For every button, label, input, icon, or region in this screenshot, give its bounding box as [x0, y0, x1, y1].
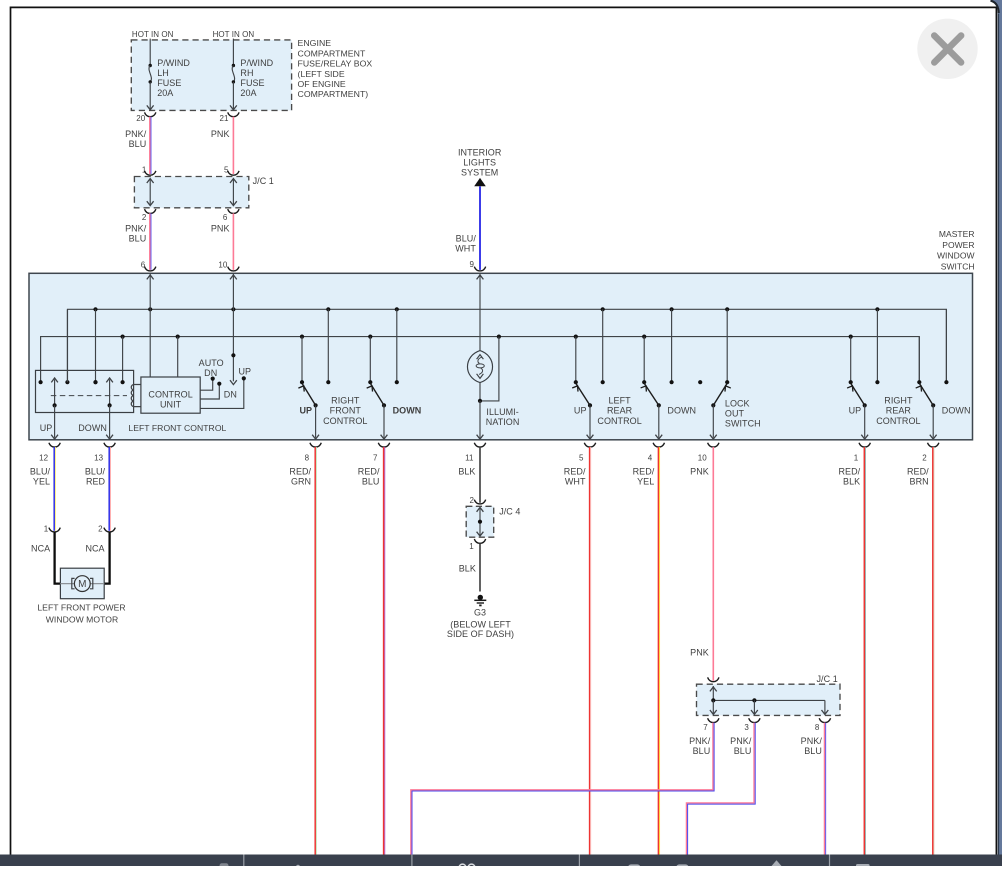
svg-text:NCA: NCA	[31, 544, 50, 554]
svg-text:10: 10	[218, 261, 227, 270]
svg-text:2: 2	[922, 453, 927, 462]
svg-text:PNK: PNK	[211, 129, 230, 139]
DN contact	[200, 385, 219, 399]
svg-text:BLK: BLK	[459, 564, 476, 574]
svg-text:BLU/: BLU/	[456, 234, 477, 244]
svg-text:9: 9	[470, 260, 475, 269]
NCA wire right (black)	[104, 532, 109, 584]
close (X) button	[917, 19, 977, 79]
svg-text:RED: RED	[86, 477, 106, 487]
svg-text:WHT: WHT	[565, 477, 586, 487]
switch pin 9 internal wire	[479, 274, 481, 351]
svg-text:LH: LH	[157, 68, 169, 78]
wire BLK J/C4 to ground	[479, 543, 481, 591]
J/C1 bottom internal wiring	[712, 686, 714, 700]
svg-text:REAR: REAR	[607, 406, 633, 416]
svg-text:M: M	[78, 579, 86, 590]
svg-text:DOWN: DOWN	[78, 423, 107, 433]
wire RED/BLU pin7 to bottom	[383, 447, 385, 855]
svg-text:13: 13	[94, 453, 103, 462]
switch pin 6 internal wire	[149, 274, 151, 377]
svg-text:DN: DN	[204, 368, 217, 378]
svg-text:OF ENGINE: OF ENGINE	[298, 79, 346, 89]
wire RED/YEL pin4 to bottom	[657, 447, 659, 855]
svg-text:BLK: BLK	[458, 467, 475, 477]
switch pole x=727.2	[726, 309, 728, 382]
wire BLU/YEL pin12	[53, 447, 55, 531]
engine compartment fuse/relay box (dashed)	[131, 40, 291, 111]
svg-text:1: 1	[469, 542, 474, 551]
bus2 contact stubs (relay and control unit)	[122, 337, 124, 383]
junction connector J/C 4	[466, 506, 494, 537]
fuse P/WIND LH 20A	[149, 39, 151, 66]
toolbar icon fragments	[220, 863, 229, 868]
bottom toolbar	[0, 855, 1002, 867]
svg-text:HOT IN ON: HOT IN ON	[213, 30, 255, 39]
svg-text:20A: 20A	[240, 88, 256, 98]
svg-text:2: 2	[98, 525, 103, 534]
left front power window motor M1	[60, 568, 104, 599]
switch bottom pin 1 connector	[859, 443, 870, 447]
svg-text:LOCK: LOCK	[725, 398, 750, 408]
svg-text:WHT: WHT	[455, 244, 476, 254]
svg-text:BLU: BLU	[804, 746, 822, 756]
svg-text:UP: UP	[299, 406, 312, 416]
switch pole x=850.7	[850, 337, 852, 383]
svg-text:1: 1	[44, 525, 49, 534]
ground G3	[478, 595, 483, 600]
switch pole x=644.2	[643, 337, 645, 383]
svg-text:RH: RH	[240, 68, 253, 78]
svg-text:WINDOW MOTOR: WINDOW MOTOR	[46, 615, 119, 625]
svg-text:PNK/: PNK/	[125, 129, 147, 139]
toolbar separators	[243, 855, 245, 867]
relay mechanical linkage (dashed)	[51, 395, 127, 397]
wire RED/GRN pin8 to bottom	[314, 447, 316, 855]
switch bottom pin 12 connector	[49, 443, 60, 447]
svg-text:BRN: BRN	[910, 477, 929, 487]
svg-text:J/C 1: J/C 1	[253, 176, 274, 186]
switch bottom pin 4 connector	[653, 443, 664, 447]
svg-text:SIDE OF DASH): SIDE OF DASH)	[447, 629, 514, 639]
svg-text:NCA: NCA	[85, 544, 104, 554]
relay moving contacts UP/DOWN	[54, 379, 56, 405]
switch bottom pin 5 connector	[584, 443, 595, 447]
svg-text:P/WIND: P/WIND	[240, 58, 273, 68]
left front control relay contact box	[36, 370, 134, 412]
isolated contact dot near lockout	[698, 380, 702, 384]
svg-text:UP: UP	[238, 367, 251, 377]
svg-text:MASTER: MASTER	[939, 229, 975, 239]
junction connector J/C 1 (bottom)	[697, 684, 841, 715]
svg-text:RED/: RED/	[907, 467, 929, 477]
switch bottom pin 7 connector	[378, 443, 389, 447]
switch bottom pin 11 connector	[474, 443, 485, 447]
wire PNK/BLU fuse20 to J/C1 pin1	[149, 117, 151, 174]
J/C1 internal through-path x=233.4	[232, 180, 234, 205]
wire BLU/WHT switch pin9 to interior lights	[479, 186, 481, 270]
svg-text:RIGHT: RIGHT	[884, 396, 913, 406]
svg-text:BLU/: BLU/	[30, 467, 51, 477]
svg-text:PNK/: PNK/	[801, 736, 823, 746]
svg-text:DOWN: DOWN	[667, 406, 696, 416]
wire PNK pin10 to J/C1 bottom	[712, 447, 714, 681]
relay coil	[131, 385, 141, 407]
wire PNK/BLU J/C1 pin3	[686, 723, 755, 855]
svg-text:G3: G3	[474, 607, 486, 617]
illumination output to pin 11	[479, 401, 481, 438]
svg-text:BLU: BLU	[693, 746, 711, 756]
wire BLU/RED pin13	[108, 447, 110, 531]
svg-text:8: 8	[815, 723, 820, 732]
svg-text:1: 1	[854, 453, 859, 462]
svg-text:PNK: PNK	[690, 647, 709, 657]
svg-text:RED/: RED/	[289, 467, 311, 477]
svg-text:RED/: RED/	[838, 467, 860, 477]
svg-text:BLU/: BLU/	[85, 467, 106, 477]
svg-text:LEFT FRONT POWER: LEFT FRONT POWER	[37, 603, 125, 613]
wire RED/WHT pin5 to bottom	[589, 447, 591, 855]
svg-text:UP: UP	[849, 406, 862, 416]
svg-text:20: 20	[136, 114, 145, 123]
svg-text:HOT IN ON: HOT IN ON	[132, 30, 174, 39]
svg-text:COMPARTMENT): COMPARTMENT)	[298, 89, 369, 99]
J/C1 internal through-path x=150.2	[149, 180, 151, 205]
J/C1 bottom pins 7 3 8 connectors	[708, 718, 719, 722]
svg-text:SWITCH: SWITCH	[725, 419, 761, 429]
svg-text:PNK: PNK	[690, 467, 709, 477]
wire PNK/BLU J/C1 pin8	[824, 723, 826, 855]
svg-text:BLU: BLU	[129, 233, 147, 243]
bus wire 2 (lower horizontal)	[41, 337, 920, 383]
bus1 junction dots	[93, 307, 97, 311]
svg-text:P/WIND: P/WIND	[157, 58, 190, 68]
switch pin 10 internal wire to auto-down pole	[232, 274, 234, 381]
NCA wire left (black)	[55, 532, 61, 584]
master power window switch box	[29, 273, 973, 440]
svg-text:DOWN: DOWN	[942, 406, 971, 416]
svg-text:21: 21	[220, 114, 229, 123]
switch pole x=575.8	[575, 337, 577, 383]
svg-text:(LEFT SIDE: (LEFT SIDE	[298, 69, 345, 79]
svg-text:ILLUMI-: ILLUMI-	[486, 407, 518, 417]
svg-text:FUSE: FUSE	[157, 78, 181, 88]
switch bottom pin 2 connector	[928, 443, 939, 447]
svg-text:12: 12	[39, 453, 48, 462]
svg-text:BLK: BLK	[843, 477, 860, 487]
svg-text:INTERIOR: INTERIOR	[458, 147, 502, 157]
svg-text:ENGINE: ENGINE	[298, 38, 332, 48]
svg-text:LEFT FRONT CONTROL: LEFT FRONT CONTROL	[128, 423, 226, 433]
svg-text:SYSTEM: SYSTEM	[461, 168, 498, 178]
wire BLK pin11 to J/C4	[479, 447, 481, 503]
svg-text:7: 7	[703, 723, 708, 732]
svg-text:GRN: GRN	[291, 477, 311, 487]
window right edge strip	[998, 0, 1002, 866]
svg-text:SWITCH: SWITCH	[941, 261, 975, 271]
svg-text:2: 2	[142, 213, 147, 222]
svg-text:10: 10	[698, 453, 707, 462]
wire PNK/BLU J/C1 pin7	[411, 723, 714, 855]
svg-text:PNK/: PNK/	[689, 736, 711, 746]
switch bottom pin 13 connector	[104, 443, 115, 447]
bus1 contact stubs with dots	[95, 309, 97, 382]
switch pole x=370.3	[369, 337, 371, 383]
svg-text:YEL: YEL	[33, 477, 50, 487]
svg-text:REAR: REAR	[886, 406, 912, 416]
svg-text:(BELOW LEFT: (BELOW LEFT	[450, 619, 511, 629]
fuse box pin 21 connector	[228, 112, 239, 116]
svg-text:PNK: PNK	[211, 223, 230, 233]
svg-text:FUSE: FUSE	[240, 78, 264, 88]
wire PNK fuse21 to J/C1 pin5	[232, 117, 234, 174]
control unit box U1	[141, 377, 200, 413]
svg-text:6: 6	[223, 213, 228, 222]
svg-text:CONTROL: CONTROL	[148, 389, 192, 399]
svg-text:UP: UP	[40, 423, 53, 433]
svg-text:DOWN: DOWN	[393, 406, 422, 416]
svg-text:RED/: RED/	[633, 467, 655, 477]
svg-text:11: 11	[465, 453, 474, 462]
svg-text:CONTROL: CONTROL	[597, 416, 641, 426]
J/C1 bottom top connector	[708, 677, 719, 681]
svg-text:FUSE/RELAY BOX: FUSE/RELAY BOX	[298, 59, 373, 69]
svg-text:J/C 1: J/C 1	[817, 674, 838, 684]
svg-text:UNIT: UNIT	[160, 399, 182, 409]
svg-text:PNK/: PNK/	[125, 223, 147, 233]
fuse P/WIND RH 20A	[232, 39, 234, 66]
switch pole x=919.3	[918, 337, 920, 383]
wire RED/BRN pin2 to bottom	[932, 447, 934, 855]
switch bottom pin 10 connector	[708, 443, 719, 447]
svg-text:3: 3	[744, 723, 749, 732]
bus2 junction dots	[121, 335, 125, 339]
svg-text:BLU: BLU	[129, 139, 147, 149]
illumination feed from bus2	[480, 337, 499, 401]
svg-text:FRONT: FRONT	[330, 406, 362, 416]
wire PNK/BLU J/C1 pin2 to switch pin6	[149, 213, 151, 270]
svg-text:OUT: OUT	[725, 409, 745, 419]
auto-down contact (AUTO DN)	[200, 380, 213, 390]
svg-text:LEFT: LEFT	[608, 396, 631, 406]
svg-text:RED/: RED/	[564, 467, 586, 477]
bus wire 1 (upper horizontal)	[68, 309, 947, 382]
svg-text:POWER: POWER	[942, 240, 974, 250]
svg-text:7: 7	[373, 453, 378, 462]
svg-text:5: 5	[579, 453, 584, 462]
svg-text:DN: DN	[224, 389, 237, 399]
svg-text:BLU: BLU	[734, 746, 752, 756]
svg-text:20A: 20A	[157, 88, 173, 98]
svg-text:RED/: RED/	[358, 467, 380, 477]
svg-text:CONTROL: CONTROL	[323, 416, 367, 426]
svg-text:PNK/: PNK/	[730, 736, 752, 746]
svg-text:CONTROL: CONTROL	[876, 416, 920, 426]
svg-text:8: 8	[305, 453, 310, 462]
svg-text:J/C 4: J/C 4	[499, 506, 520, 516]
svg-text:WINDOW: WINDOW	[937, 251, 975, 261]
wire PNK J/C1 pin6 to switch pin10	[232, 213, 234, 270]
svg-text:2: 2	[470, 496, 475, 505]
svg-text:UP: UP	[574, 406, 587, 416]
UP contact (auto switch)	[200, 380, 244, 408]
switch bottom pin 8 connector	[310, 443, 321, 447]
svg-text:AUTO: AUTO	[199, 358, 224, 368]
wire RED/BLK pin1 to bottom	[863, 447, 865, 855]
svg-text:NATION: NATION	[486, 417, 520, 427]
fuse box pin 20 connector	[145, 112, 156, 116]
svg-text:LIGHTS: LIGHTS	[463, 157, 496, 167]
svg-text:YEL: YEL	[637, 477, 654, 487]
svg-text:COMPARTMENT: COMPARTMENT	[298, 48, 366, 58]
switch pole x=302.0	[301, 337, 303, 383]
rounded window corner top-right	[990, 0, 1002, 14]
svg-text:4: 4	[648, 453, 653, 462]
svg-text:RIGHT: RIGHT	[331, 396, 360, 406]
illumination lamp	[467, 351, 492, 383]
svg-text:BLU: BLU	[362, 477, 380, 487]
relay contact dots	[39, 380, 43, 384]
